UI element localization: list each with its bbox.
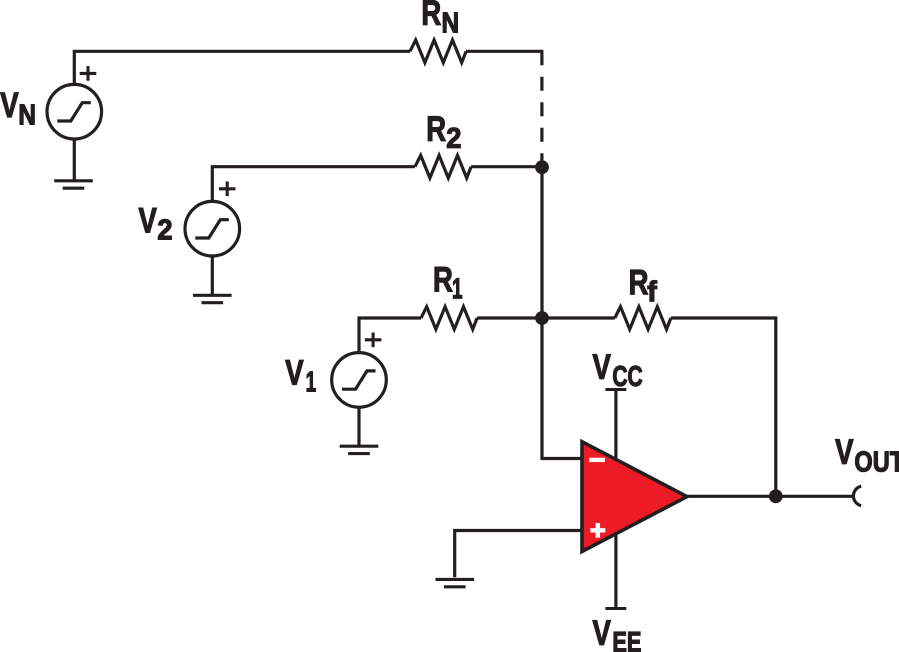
label VEE [592, 612, 641, 652]
label R2 [426, 108, 461, 153]
svg-text:N: N [18, 99, 36, 131]
ground of V2 [193, 295, 232, 302]
svg-text:V: V [0, 85, 18, 125]
VCC terminal bar [605, 388, 626, 391]
node A junction dot [535, 160, 549, 174]
wire VN to ground [73, 139, 76, 181]
wire VN top: from VN source up and right to RN [74, 51, 410, 85]
wire non-inverting input to ground [455, 531, 583, 578]
dashed wire (continuation dots) [540, 51, 543, 167]
label V2 [138, 200, 172, 245]
svg-text:V: V [592, 346, 610, 386]
wire VEE supply [614, 530, 617, 607]
wire V1 top: from V1 source up and right to R1 [359, 318, 421, 352]
source V1 [332, 353, 387, 408]
label VCC [592, 346, 642, 392]
svg-text:R: R [433, 259, 453, 299]
label Rf [629, 262, 658, 308]
wire main vertical: node A down through node B to inverting input [542, 167, 583, 459]
label VOUT [835, 431, 899, 478]
resistor R2 [415, 155, 471, 178]
ground of non-inverting input [436, 579, 475, 586]
svg-text:V: V [592, 612, 610, 652]
wire RN to dashed node [466, 50, 543, 53]
output node junction dot [769, 489, 783, 503]
op-amp minus pin mark [589, 458, 605, 462]
plus mark VN [80, 66, 97, 81]
ground of V1 [340, 446, 379, 453]
resistor Rf [615, 307, 671, 330]
wire R1 to node B [477, 316, 543, 319]
label V1 [285, 352, 316, 398]
svg-text:V: V [835, 431, 853, 471]
label VN [0, 85, 36, 131]
ground of VN [54, 181, 93, 188]
op-amp U1 [582, 442, 687, 552]
wire output [686, 495, 853, 498]
wire V2 top: from V2 source up and right to R2 [212, 167, 415, 201]
svg-text:R: R [426, 108, 446, 148]
output terminal arc [853, 486, 861, 506]
resistor RN [410, 40, 466, 63]
wire V2 to ground [211, 256, 214, 295]
plus mark V1 [365, 333, 382, 348]
label R1 [433, 259, 463, 305]
svg-text:R: R [421, 0, 441, 33]
svg-text:N: N [441, 7, 459, 39]
svg-text:2: 2 [157, 214, 172, 246]
resistor R1 [421, 307, 477, 330]
source VN [47, 84, 102, 139]
node B junction dot [535, 311, 549, 325]
VEE terminal bar [605, 607, 626, 610]
label RN [421, 0, 459, 39]
source V2 [185, 201, 240, 256]
svg-text:OUT: OUT [854, 445, 899, 478]
wire R2 to node A [471, 165, 543, 168]
wire node B to Rf [542, 316, 615, 319]
wire Rf to output node [671, 318, 776, 496]
wire V1 to ground [357, 407, 360, 446]
svg-text:EE: EE [612, 627, 641, 652]
svg-text:CC: CC [612, 361, 642, 393]
svg-text:2: 2 [446, 122, 461, 154]
svg-text:1: 1 [452, 274, 463, 306]
svg-text:1: 1 [306, 367, 317, 399]
wire VCC supply [614, 391, 617, 462]
svg-text:V: V [138, 200, 156, 240]
svg-text:V: V [285, 352, 303, 392]
svg-text:R: R [629, 262, 649, 302]
op-amp plus pin mark [590, 523, 605, 538]
plus mark V2 [219, 182, 236, 197]
svg-text:f: f [647, 276, 657, 308]
